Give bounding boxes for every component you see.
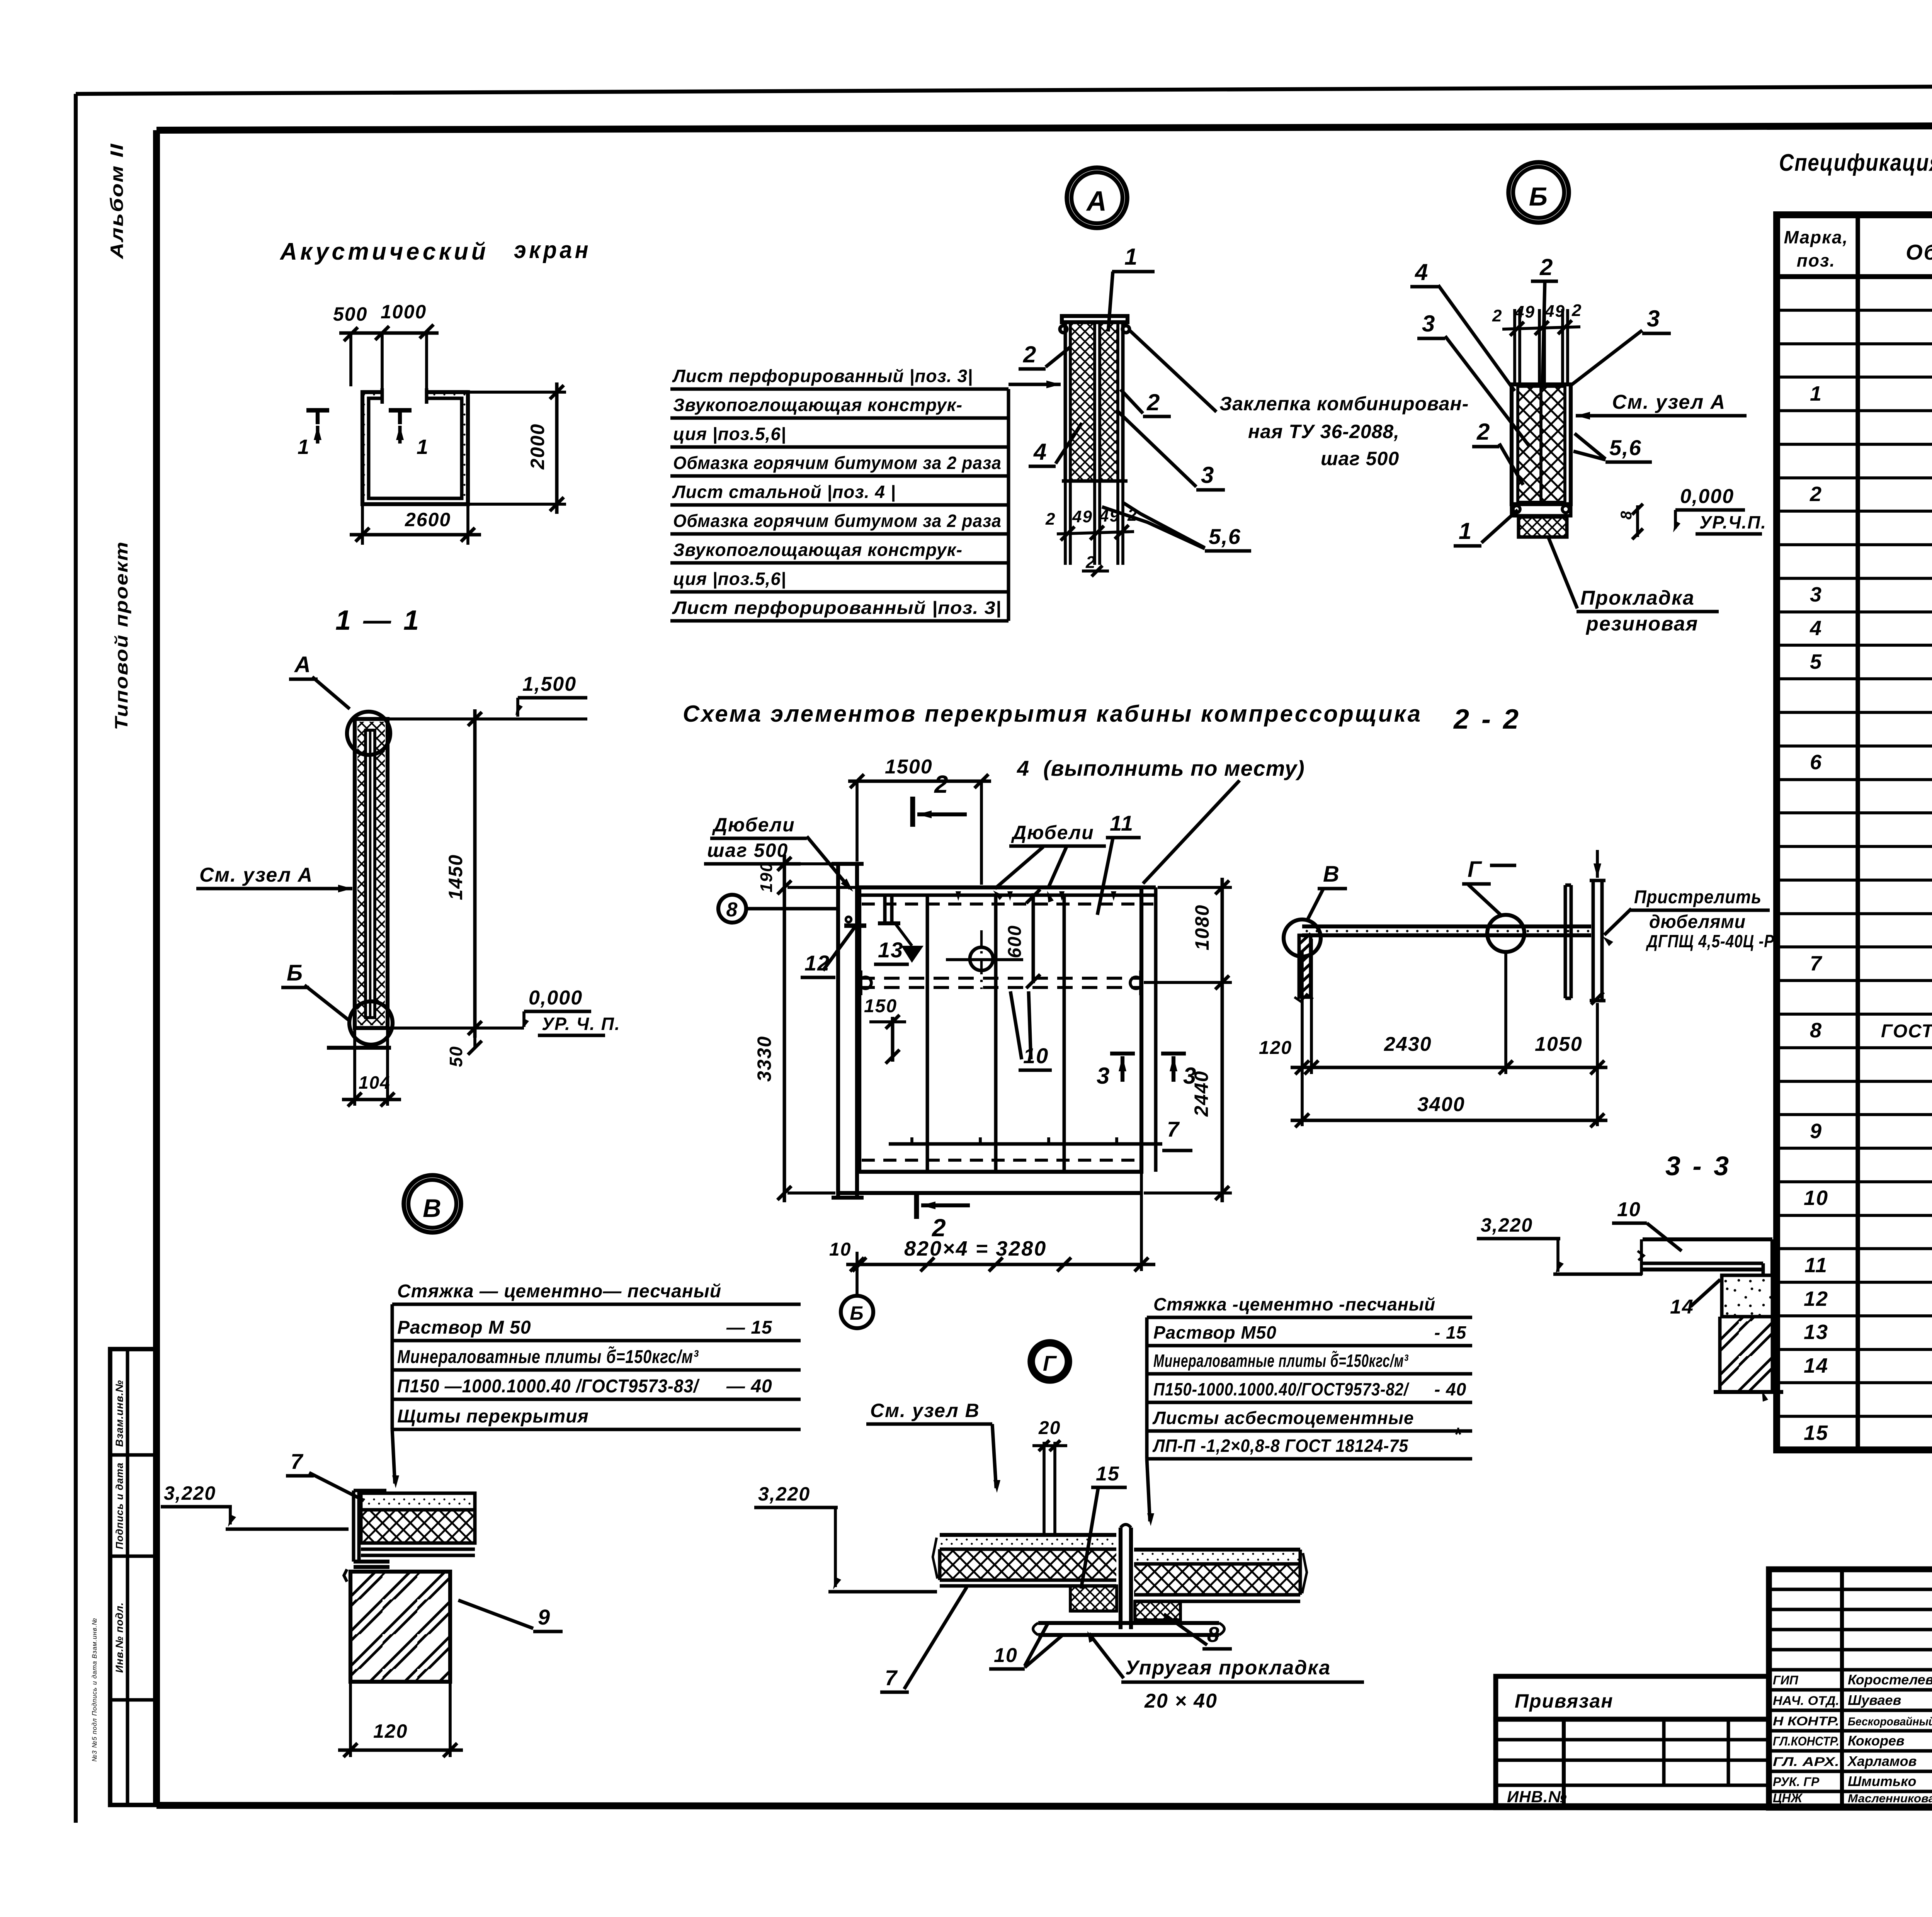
svg-text:10: 10 <box>829 1239 851 1260</box>
svg-text:1: 1 <box>417 435 429 459</box>
svg-text:2 - 2: 2 - 2 <box>1453 704 1521 735</box>
svg-text:Кокорев: Кокорев <box>1848 1733 1905 1749</box>
svg-text:120: 120 <box>373 1720 408 1742</box>
svg-text:3,220: 3,220 <box>758 1483 810 1505</box>
svg-text:ГИП: ГИП <box>1773 1673 1799 1687</box>
svg-text:2: 2 <box>1085 553 1096 572</box>
svg-text:В: В <box>423 1194 442 1222</box>
svg-text:А: А <box>294 652 311 677</box>
svg-text:104: 104 <box>359 1072 391 1093</box>
svg-text:10: 10 <box>1617 1198 1641 1221</box>
svg-text:УР.Ч.П.: УР.Ч.П. <box>1699 512 1767 532</box>
svg-text:дюбелями: дюбелями <box>1649 912 1746 932</box>
svg-text:РУК. ГР: РУК. ГР <box>1773 1775 1820 1789</box>
svg-text:49: 49 <box>1514 303 1535 321</box>
svg-text:1000: 1000 <box>381 301 427 323</box>
svg-text:50: 50 <box>446 1046 466 1067</box>
svg-text:120: 120 <box>1259 1038 1292 1058</box>
svg-text:2: 2 <box>1476 419 1490 445</box>
svg-text:7: 7 <box>291 1449 304 1473</box>
svg-text:ГЛ.КОНСТР.: ГЛ.КОНСТР. <box>1773 1734 1839 1748</box>
svg-text:Дюбели: Дюбели <box>1011 822 1094 843</box>
svg-text:5,6: 5,6 <box>1209 524 1241 549</box>
svg-text:1 — 1: 1 — 1 <box>335 605 421 636</box>
svg-text:9: 9 <box>538 1605 551 1629</box>
svg-text:ная ТУ 36-2088,: ная ТУ 36-2088, <box>1248 421 1400 442</box>
svg-text:Акустический: Акустический <box>279 238 489 265</box>
svg-text:Б: Б <box>850 1302 864 1324</box>
svg-text:5: 5 <box>1810 650 1822 673</box>
svg-text:9: 9 <box>1810 1120 1822 1143</box>
svg-text:7: 7 <box>1810 952 1823 975</box>
svg-text:шаг 500: шаг 500 <box>707 840 788 861</box>
svg-text:3,220: 3,220 <box>164 1482 216 1504</box>
svg-text:Взам.инв.№: Взам.инв.№ <box>114 1380 125 1447</box>
svg-text:экран: экран <box>514 237 591 263</box>
svg-text:ГОСТ 18124 — 75*: ГОСТ 18124 — 75* <box>1881 1021 1932 1042</box>
svg-text:11: 11 <box>1804 1254 1828 1277</box>
svg-text:13: 13 <box>878 938 903 962</box>
svg-text:190: 190 <box>757 862 776 892</box>
svg-text:2: 2 <box>1023 342 1037 367</box>
svg-text:Звукопоглощающая конструк-: Звукопоглощающая конструк- <box>673 540 963 560</box>
svg-text:— 40: — 40 <box>726 1376 772 1397</box>
svg-text:Лист перфорированный |поз.: Лист перфорированный |поз. 3| <box>672 598 1002 618</box>
svg-text:3,220: 3,220 <box>1481 1214 1533 1236</box>
svg-text:Харламов: Харламов <box>1847 1753 1917 1769</box>
svg-text:Стяжка -цементно -песчаный: Стяжка -цементно -песчаный <box>1153 1294 1435 1314</box>
svg-text:3330: 3330 <box>753 1036 775 1082</box>
svg-text:15: 15 <box>1096 1463 1120 1485</box>
svg-text:0,000: 0,000 <box>1680 485 1734 508</box>
svg-text:500: 500 <box>333 303 367 325</box>
svg-text:Б: Б <box>287 960 303 986</box>
svg-text:Коростелев: Коростелев <box>1848 1672 1932 1688</box>
svg-text:12: 12 <box>804 951 830 975</box>
svg-text:2: 2 <box>1810 483 1822 506</box>
svg-text:2: 2 <box>1539 254 1553 280</box>
svg-text:2: 2 <box>1146 389 1160 415</box>
svg-text:14: 14 <box>1670 1296 1694 1318</box>
svg-text:2: 2 <box>934 770 949 798</box>
svg-text:Обозначение: Обозначение <box>1906 240 1932 264</box>
svg-text:1: 1 <box>1810 382 1822 405</box>
svg-text:4: 4 <box>1810 617 1822 640</box>
svg-text:Обмазка горячим битумом за 2 р: Обмазка горячим битумом за 2 раза <box>673 453 1002 473</box>
svg-text:Г: Г <box>1468 857 1482 882</box>
svg-text:3: 3 <box>1422 311 1435 336</box>
svg-text:8: 8 <box>1207 1622 1220 1647</box>
svg-text:1050: 1050 <box>1535 1033 1583 1055</box>
svg-text:1080: 1080 <box>1191 904 1213 950</box>
svg-text:1,500: 1,500 <box>522 673 577 695</box>
svg-text:Раствор М 50: Раствор М 50 <box>397 1317 531 1338</box>
svg-text:поз.: поз. <box>1797 250 1835 270</box>
svg-text:1450: 1450 <box>445 854 466 900</box>
svg-text:12: 12 <box>1804 1287 1828 1310</box>
svg-text:49: 49 <box>1544 302 1565 321</box>
svg-text:Г: Г <box>1043 1351 1057 1375</box>
svg-text:20 × 40: 20 × 40 <box>1144 1690 1218 1712</box>
svg-text:Раствор М50: Раствор М50 <box>1153 1322 1277 1343</box>
svg-text:См. узел А: См. узел А <box>1612 391 1726 413</box>
svg-text:ЦНЖ: ЦНЖ <box>1773 1791 1803 1805</box>
svg-text:10: 10 <box>1804 1186 1828 1210</box>
svg-text:резиновая: резиновая <box>1585 613 1698 635</box>
svg-text:49: 49 <box>1072 507 1093 526</box>
svg-text:4: 4 <box>1415 259 1429 285</box>
svg-text:Подпись и дата: Подпись и дата <box>114 1462 125 1549</box>
svg-text:Минераловатные плиты б̃=150к: Минераловатные плиты б̃=150кгс/м³ <box>397 1346 699 1367</box>
svg-text:3 - 3: 3 - 3 <box>1665 1151 1731 1181</box>
svg-text:5,6: 5,6 <box>1609 435 1642 460</box>
svg-text:НАЧ. ОТД.: НАЧ. ОТД. <box>1773 1694 1839 1708</box>
svg-text:0,000: 0,000 <box>529 987 583 1009</box>
svg-text:1: 1 <box>1459 518 1472 544</box>
svg-text:Пристрелить: Пристрелить <box>1634 887 1762 908</box>
svg-text:А: А <box>1086 186 1107 217</box>
svg-text:150: 150 <box>864 996 897 1016</box>
svg-text:Упругая прокладка: Упругая прокладка <box>1125 1657 1331 1679</box>
svg-text:П150-1000.1000.40/ГОСТ9573-82/: П150-1000.1000.40/ГОСТ9573-82/ <box>1153 1379 1410 1399</box>
svg-text:1: 1 <box>1124 244 1138 270</box>
svg-text:1: 1 <box>298 435 310 459</box>
svg-text:УР. Ч. П.: УР. Ч. П. <box>542 1014 621 1034</box>
svg-text:Схема элементов перекрытия: Схема элементов перекрытия кабины компре… <box>683 701 1422 727</box>
svg-text:3: 3 <box>1183 1063 1197 1089</box>
svg-text:820×4 = 3280: 820×4 = 3280 <box>904 1237 1047 1260</box>
svg-text:3: 3 <box>1810 583 1822 606</box>
svg-text:2000: 2000 <box>527 423 548 470</box>
svg-text:Шуваев: Шуваев <box>1848 1692 1901 1708</box>
svg-text:Обмазка горячим битумом за 2 р: Обмазка горячим битумом за 2 раза <box>673 511 1002 531</box>
svg-text:Звукопоглощающая конструк-: Звукопоглощающая конструк- <box>673 395 963 415</box>
svg-text:ция |поз.5,6|: ция |поз.5,6| <box>673 569 786 589</box>
svg-text:Б: Б <box>1529 182 1548 211</box>
svg-text:14: 14 <box>1804 1354 1828 1377</box>
svg-text:3400: 3400 <box>1417 1093 1465 1116</box>
svg-text:10: 10 <box>1023 1043 1049 1068</box>
svg-text:600: 600 <box>1005 925 1025 958</box>
svg-text:— 15: — 15 <box>726 1317 772 1338</box>
svg-text:8: 8 <box>1618 510 1635 520</box>
svg-text:Типовой проект: Типовой проект <box>111 541 131 730</box>
svg-text:2: 2 <box>1045 510 1056 529</box>
svg-text:Прокладка: Прокладка <box>1580 587 1695 609</box>
svg-text:ЛП-П -1,2×0,8-8 ГОСТ 18124-75: ЛП-П -1,2×0,8-8 ГОСТ 18124-75 <box>1152 1436 1408 1456</box>
svg-text:4: 4 <box>1033 439 1047 465</box>
svg-text:8: 8 <box>726 899 738 921</box>
svg-text:Инв.№ подл.: Инв.№ подл. <box>114 1602 125 1673</box>
svg-text:11: 11 <box>1110 811 1134 835</box>
svg-text:Спецификация элементов на а: Спецификация элементов на акустический э… <box>1779 150 1932 176</box>
svg-text:2430: 2430 <box>1384 1033 1432 1055</box>
svg-text:Заклепка комбинирован-: Заклепка комбинирован- <box>1219 393 1469 415</box>
svg-text:20: 20 <box>1038 1418 1061 1438</box>
svg-text:3: 3 <box>1097 1063 1110 1089</box>
svg-text:Н КОНТР.: Н КОНТР. <box>1773 1714 1839 1728</box>
svg-text:7: 7 <box>885 1665 898 1690</box>
svg-text:См. узел В: См. узел В <box>870 1400 980 1421</box>
svg-text:2: 2 <box>1492 306 1502 325</box>
svg-text:ДГПЩ 4,5-40Ц -Р: ДГПЩ 4,5-40Ц -Р <box>1646 931 1774 951</box>
svg-text:ция |поз.5,6|: ция |поз.5,6| <box>673 424 786 444</box>
svg-text:7: 7 <box>1167 1117 1180 1141</box>
svg-text:П150 —1000.1000.40 /ГОСТ9573-8: П150 —1000.1000.40 /ГОСТ9573-83/ <box>397 1376 700 1397</box>
svg-text:- 15: - 15 <box>1434 1322 1467 1343</box>
svg-text:№3 №5 подл Подпись и дата Вз: №3 №5 подл Подпись и дата Взам.инв.№ <box>91 1618 98 1762</box>
svg-text:1500: 1500 <box>885 756 933 778</box>
svg-text:Дюбели: Дюбели <box>712 814 795 836</box>
svg-text:См. узел А: См. узел А <box>199 864 313 886</box>
svg-text:Марка,: Марка, <box>1784 227 1849 247</box>
svg-text:4: 4 <box>1017 756 1030 780</box>
svg-text:ГЛ. АРХ.: ГЛ. АРХ. <box>1773 1755 1839 1769</box>
svg-text:10: 10 <box>994 1644 1018 1667</box>
svg-text:3: 3 <box>1647 306 1660 331</box>
svg-text:ИНВ.№: ИНВ.№ <box>1507 1788 1567 1806</box>
svg-text:Альбом II: Альбом II <box>107 143 127 259</box>
svg-text:8: 8 <box>1810 1019 1822 1042</box>
svg-text:3: 3 <box>1201 462 1214 488</box>
svg-text:Бескоровайный: Бескоровайный <box>1848 1715 1932 1728</box>
svg-text:13: 13 <box>1804 1320 1828 1344</box>
svg-text:Листы асбестоцементные: Листы асбестоцементные <box>1152 1408 1414 1428</box>
svg-text:Лист стальной |поз. 4: Лист стальной |поз. 4 | <box>672 482 896 502</box>
svg-text:Щиты перекрытия: Щиты перекрытия <box>397 1406 589 1427</box>
svg-text:2: 2 <box>1571 301 1582 320</box>
svg-text:Стяжка — цементно— песчаный: Стяжка — цементно— песчаный <box>397 1281 721 1302</box>
svg-text:- 40: - 40 <box>1434 1379 1466 1399</box>
svg-text:Привязан: Привязан <box>1515 1690 1614 1712</box>
svg-text:2600: 2600 <box>405 509 451 530</box>
svg-text:(выполнить по месту): (выполнить по месту) <box>1043 756 1305 780</box>
svg-text:6: 6 <box>1810 751 1822 774</box>
svg-text:*: * <box>1454 1424 1462 1445</box>
svg-text:Минераловатные плиты б̃=150к: Минераловатные плиты б̃=150кгс/м³ <box>1153 1351 1408 1371</box>
svg-text:15: 15 <box>1804 1421 1828 1445</box>
svg-text:шаг 500: шаг 500 <box>1321 448 1399 469</box>
svg-text:Масленникова: Масленникова <box>1848 1792 1932 1805</box>
svg-text:Шмитько: Шмитько <box>1848 1773 1917 1789</box>
svg-text:В: В <box>1323 862 1340 887</box>
svg-text:Лист перфорированный |поз. 3|: Лист перфорированный |поз. 3| <box>672 366 973 386</box>
